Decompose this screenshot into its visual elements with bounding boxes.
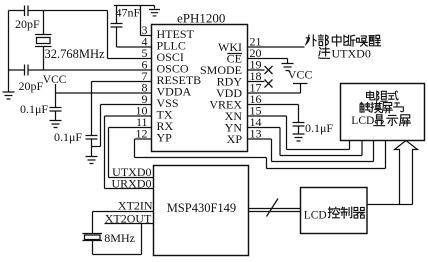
svg-text:UTXD0: UTXD0	[332, 47, 371, 61]
svg-text:20pF: 20pF	[19, 79, 44, 93]
svg-text:0.1μF: 0.1μF	[20, 102, 48, 116]
svg-text:8MHz: 8MHz	[104, 231, 135, 245]
svg-text:YP: YP	[157, 130, 173, 144]
svg-text:32.768MHz: 32.768MHz	[45, 47, 106, 61]
svg-text:MSP430F149: MSP430F149	[167, 201, 236, 215]
svg-text:47nF: 47nF	[116, 6, 141, 20]
svg-text:VCC: VCC	[43, 74, 67, 86]
svg-text:LCD: LCD	[351, 115, 374, 127]
svg-text:VCC: VCC	[288, 68, 313, 82]
svg-text:LCD: LCD	[304, 209, 327, 221]
svg-text:URXD0: URXD0	[111, 177, 151, 191]
svg-text:0.1μF: 0.1μF	[54, 130, 82, 144]
svg-text:20pF: 20pF	[15, 17, 40, 31]
svg-text:XP: XP	[227, 132, 243, 146]
svg-text:13: 13	[250, 126, 262, 140]
svg-text:ePH1200: ePH1200	[177, 10, 225, 25]
svg-text:0.1μF: 0.1μF	[305, 121, 333, 135]
